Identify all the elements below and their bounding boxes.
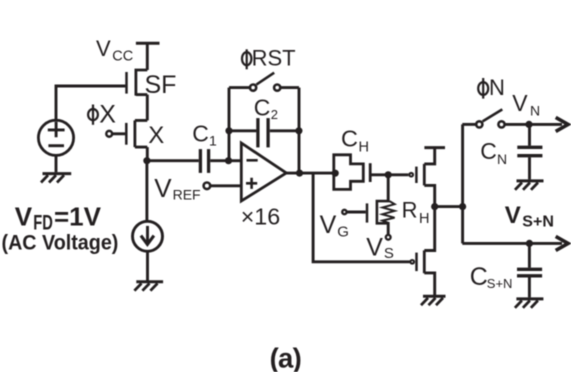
- svg-text:REF: REF: [173, 186, 201, 202]
- label V_REF: [154, 173, 200, 203]
- wire feedback left vertical: [228, 88, 231, 161]
- wire VCC to SF drain: [146, 43, 149, 70]
- wire V_S+N arrow: [529, 242, 562, 245]
- wire op-amp output: [286, 172, 334, 175]
- phiX terminal: [106, 131, 112, 137]
- svg-text:X: X: [99, 101, 116, 129]
- supply bar (buffer): [424, 146, 445, 149]
- wire R_H bottom lead: [387, 223, 390, 234]
- wire phiX to X gate: [113, 132, 126, 135]
- svg-text:C: C: [341, 126, 358, 152]
- capacitor C_H plate shape: [334, 155, 364, 190]
- transistor lower buffer PMOS: [410, 207, 434, 296]
- ground (buffer): [421, 296, 446, 305]
- wire phiN to V_N node: [505, 123, 529, 126]
- V_REF terminal: [204, 183, 211, 190]
- node output feedback junction: [296, 170, 303, 177]
- wire X source to node: [146, 147, 149, 161]
- label V_S: [366, 234, 394, 263]
- wire C2 left: [229, 129, 256, 132]
- svg-text:1: 1: [209, 132, 217, 148]
- wire buffer mid to right branch: [435, 205, 463, 208]
- capacitor C1: [200, 149, 208, 173]
- capacitor C_N: [517, 147, 542, 155]
- svg-text:SF: SF: [145, 71, 177, 99]
- wire supply to upper transistor: [424, 148, 434, 164]
- label phiRST: [242, 49, 251, 69]
- ground (C_S+N): [515, 299, 544, 308]
- wire phiRST left: [229, 86, 250, 89]
- wire node to current source: [145, 161, 148, 222]
- svg-text:FD: FD: [33, 211, 53, 234]
- capacitor C_H right plate: [369, 163, 372, 182]
- wire AC source to SF gate: [56, 86, 125, 120]
- svg-text:S+N: S+N: [522, 214, 554, 231]
- node buffer mid junction: [431, 203, 438, 210]
- label V_FD=1V: [15, 201, 102, 234]
- svg-text:(AC Voltage): (AC Voltage): [2, 232, 119, 255]
- svg-text:×16: ×16: [241, 203, 281, 229]
- V_G terminal: [342, 210, 346, 214]
- label R_H: [402, 198, 430, 227]
- svg-text:G: G: [337, 224, 349, 241]
- node C2 right junction: [295, 127, 302, 134]
- V_S terminal: [386, 235, 391, 240]
- wire phiRST right: [281, 86, 300, 89]
- svg-text:RST: RST: [252, 46, 296, 71]
- wire SF source to X drain: [146, 95, 149, 121]
- node inverting input junction: [225, 157, 232, 164]
- op-amp U1: [241, 143, 286, 201]
- svg-text:N: N: [530, 102, 540, 118]
- node C_H junction: [332, 170, 339, 177]
- switch phiN: [476, 109, 504, 127]
- svg-text:2: 2: [271, 107, 278, 122]
- transistor R_H (MOS resistor): [367, 201, 395, 223]
- label C1: [192, 121, 217, 149]
- wire AC source to ground: [55, 155, 58, 172]
- svg-text:X: X: [148, 122, 164, 149]
- svg-text:V: V: [320, 211, 337, 239]
- wire node to C1: [147, 159, 199, 162]
- svg-text:C: C: [470, 263, 488, 291]
- wire V_S+N node to C_S+N: [528, 243, 531, 267]
- svg-text:C: C: [254, 95, 271, 121]
- svg-text:V: V: [512, 90, 528, 116]
- capacitor C_S+N: [517, 269, 542, 276]
- label C2: [254, 95, 278, 122]
- wire C2 right: [270, 129, 299, 132]
- wire output tap down to lower gate: [313, 173, 410, 262]
- wire V_S+N horizontal: [462, 242, 529, 245]
- wire right branch vertical: [461, 124, 464, 243]
- svg-text:V: V: [96, 36, 111, 61]
- ground (C_N): [515, 181, 544, 190]
- wire C_N to ground: [528, 157, 531, 179]
- label V_S+N: [505, 202, 554, 231]
- transistor SF: [127, 69, 148, 96]
- svg-text:=1V: =1V: [54, 201, 102, 231]
- node R_H tap junction: [385, 171, 392, 178]
- label phiX: [88, 105, 98, 125]
- svg-text:S: S: [384, 245, 394, 262]
- ground (AC source): [41, 174, 71, 183]
- V_CC supply bar: [136, 42, 160, 45]
- transistor upper buffer PMOS: [409, 164, 434, 207]
- node right branch junction: [459, 203, 466, 210]
- svg-text:R: R: [402, 198, 418, 223]
- label C_N: [480, 138, 507, 167]
- label V_N: [512, 90, 540, 118]
- node V_N junction: [525, 121, 532, 128]
- plus sign: [246, 178, 257, 189]
- node C2 left tap: [225, 127, 232, 134]
- svg-text:S+N: S+N: [487, 276, 513, 291]
- wire node to minus input: [229, 159, 242, 162]
- switch phiRST: [250, 73, 280, 91]
- label C_S+N: [470, 263, 513, 291]
- svg-text:CC: CC: [112, 49, 133, 65]
- capacitor C2: [258, 118, 268, 147]
- svg-text:(a): (a): [270, 343, 302, 372]
- svg-text:C: C: [480, 138, 497, 164]
- wire V_N node to C_N: [528, 124, 531, 145]
- wire V_N arrow: [529, 123, 562, 126]
- wire to phiN switch: [462, 123, 476, 126]
- node FD junction: [143, 157, 150, 164]
- svg-text:H: H: [419, 211, 429, 227]
- wire R_H top lead: [387, 175, 390, 201]
- minus sign: [247, 159, 258, 162]
- svg-text:N: N: [489, 75, 505, 100]
- current source: [133, 221, 163, 251]
- wire C1 to inverting node: [210, 159, 228, 162]
- transistor X: [126, 120, 147, 147]
- label V_G: [320, 211, 349, 241]
- wire V_G to R_H gate: [347, 211, 366, 214]
- svg-text:V: V: [505, 202, 521, 229]
- svg-text:V: V: [15, 201, 33, 231]
- svg-text:H: H: [359, 139, 369, 155]
- wire feedback right vertical: [298, 88, 301, 174]
- node V_S+N junction: [526, 240, 533, 247]
- svg-text:C: C: [192, 121, 209, 147]
- wire VREF to plus input: [210, 184, 241, 187]
- svg-text:N: N: [497, 151, 507, 167]
- svg-text:V: V: [366, 234, 383, 262]
- svg-text:V: V: [154, 173, 172, 203]
- wire C_S+N to ground: [528, 277, 531, 297]
- wire current source to ground: [146, 251, 149, 280]
- wire C_H to buffer gate: [370, 173, 408, 176]
- label phiN: [478, 78, 488, 99]
- ground (current source): [134, 282, 163, 291]
- AC voltage source V_FD: [38, 120, 73, 155]
- label V_CC: [96, 36, 133, 65]
- label C_H: [341, 126, 369, 156]
